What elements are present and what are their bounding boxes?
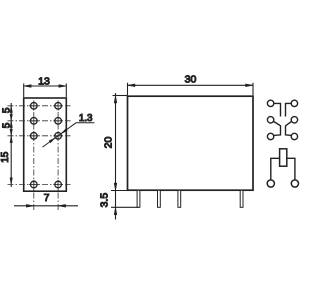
dimension 13 bbox=[24, 84, 67, 98]
svg-text:1.3: 1.3 bbox=[79, 113, 93, 124]
centerline row 3 bbox=[8, 135, 71, 137]
centerline row 4 bbox=[8, 184, 71, 186]
blade wire right bbox=[286, 103, 292, 116]
svg-text:5: 5 bbox=[1, 107, 12, 113]
pin 2 bbox=[158, 190, 161, 207]
svg-text:5: 5 bbox=[1, 122, 12, 128]
footprint outline bbox=[24, 98, 67, 191]
centerline column left bbox=[33, 101, 35, 211]
coil terminal right bbox=[291, 180, 298, 187]
svg-text:7: 7 bbox=[44, 192, 50, 204]
dimension 20 bbox=[111, 93, 128, 220]
coil lead left bbox=[271, 158, 280, 180]
contact terminal MR bbox=[291, 117, 297, 123]
centerline row 2 bbox=[8, 120, 71, 122]
dimension 7 bbox=[14, 204, 78, 207]
coil U1 bbox=[280, 149, 287, 166]
contact terminal BL bbox=[267, 133, 273, 139]
coil terminal left bbox=[267, 180, 274, 187]
contact terminal TR bbox=[291, 100, 297, 106]
coil lead right bbox=[287, 158, 295, 180]
hole B2 bbox=[55, 118, 62, 125]
hole A2 bbox=[31, 118, 38, 125]
diameter leader 1.3 bbox=[43, 123, 95, 147]
contact terminal BR bbox=[291, 133, 297, 139]
hole B1 bbox=[55, 103, 62, 110]
hole B3 bbox=[55, 133, 62, 140]
contact terminal ML bbox=[267, 117, 273, 123]
svg-text:15: 15 bbox=[0, 151, 11, 163]
blade wire left bbox=[274, 103, 281, 116]
svg-text:30: 30 bbox=[185, 73, 197, 85]
pin 3 bbox=[178, 190, 181, 207]
pin 1 bbox=[137, 190, 140, 207]
hole cross marks bbox=[29, 101, 63, 189]
contact wire left bbox=[274, 121, 281, 135]
hole A1 bbox=[31, 103, 38, 110]
relay body side view bbox=[128, 96, 254, 190]
hole A3 bbox=[31, 133, 38, 140]
dimension 30 bbox=[128, 83, 254, 95]
pin 4 bbox=[240, 190, 243, 207]
hole B4 bbox=[55, 181, 62, 188]
svg-text:13: 13 bbox=[38, 76, 50, 88]
svg-text:20: 20 bbox=[103, 137, 115, 149]
contact terminal TL bbox=[267, 100, 273, 106]
centerline column right bbox=[57, 101, 59, 211]
dimension 3.5 bbox=[111, 207, 139, 215]
contact wire right bbox=[286, 121, 292, 135]
svg-text:3.5: 3.5 bbox=[98, 193, 110, 208]
hole A4 bbox=[31, 181, 38, 188]
dimension chain 5 5 15 bbox=[10, 103, 13, 187]
centerline row 1 bbox=[8, 105, 71, 107]
